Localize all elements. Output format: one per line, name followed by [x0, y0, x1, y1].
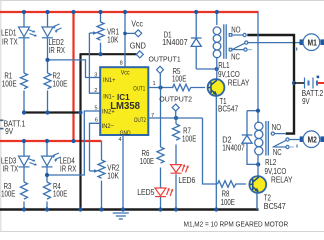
wire: LED2 tap to IN1+ (pin3): [48, 60, 101, 78]
wire: GND black wire to diamond: [80, 53, 137, 55]
svg-text:NC: NC: [231, 52, 240, 61]
resistor R3: [21, 182, 28, 199]
LED6: [171, 165, 189, 174]
wire: LED3 column: [23, 141, 25, 210]
battery BATT.2: [292, 81, 296, 85]
LED2 IR RX: [42, 24, 62, 38]
wire: +9V top rail (red): [0, 11, 259, 13]
svg-text:BC547: BC547: [264, 202, 286, 211]
svg-text:OUTPUT2: OUTPUT2: [159, 97, 192, 104]
resistor R5: [173, 84, 206, 91]
svg-text:BC547: BC547: [218, 104, 239, 113]
svg-text:9V,1CO: 9V,1CO: [218, 70, 240, 79]
svg-text:RELAY: RELAY: [271, 176, 293, 185]
relay RL1 contacts: [229, 33, 248, 51]
wire: blue vertical from rail end to RL2: [257, 12, 259, 123]
wire: black vertical ground bus x=80.5: [79, 54, 81, 211]
svg-text:M2: M2: [308, 135, 318, 144]
svg-text:NC: NC: [273, 148, 282, 157]
svg-text:Vcc: Vcc: [131, 20, 143, 29]
wire: Vcc diamond branch: [125, 32, 135, 34]
wire: R7 column: [175, 118, 177, 210]
wire: VR1 wiper to IN1- (pin2): [89, 33, 100, 93]
svg-text:LED1: LED1: [1, 29, 17, 38]
wire: red vertical link x=73.5: [72, 12, 74, 141]
svg-text:LED6: LED6: [178, 176, 195, 185]
node: GND diamond: [136, 51, 143, 58]
resistor R7: [173, 124, 180, 140]
svg-text:RL2: RL2: [265, 158, 277, 167]
resistor R2: [44, 73, 51, 89]
wire: BATT.2 positive stub (red): [318, 82, 324, 84]
svg-text:100E: 100E: [140, 157, 154, 166]
svg-text:IR TX: IR TX: [3, 164, 19, 173]
ground symbol: [113, 213, 129, 219]
wire: LED2 column: [47, 12, 49, 113]
wire: bottom ground rail (black): [0, 208, 259, 211]
svg-text:100E: 100E: [53, 80, 68, 89]
svg-text:1N4007: 1N4007: [162, 38, 188, 47]
wire: RL1 common to M1: [248, 42, 300, 44]
node: lower rail dots: [22, 139, 26, 143]
svg-text:IR RX: IR RX: [60, 165, 77, 174]
LED5: [155, 188, 173, 197]
svg-text:9V: 9V: [302, 97, 310, 106]
transistor T1 BC547: [215, 95, 217, 210]
node: VR1 top/bottom dots: [98, 10, 102, 14]
svg-text:NO: NO: [272, 123, 281, 132]
wire: NO1 black wire to battery bus: [247, 35, 294, 134]
wire: LED4 column: [46, 141, 48, 210]
wire: VR2 wiper to IN2- (pin6): [90, 123, 101, 171]
svg-text:4: 4: [119, 137, 122, 143]
IC1 internal labels: [102, 69, 147, 137]
svg-text:9V: 9V: [5, 127, 14, 136]
svg-text:5: 5: [95, 106, 98, 112]
diode D1 1N4007: [191, 12, 217, 69]
LED4 IR RX: [42, 153, 62, 167]
svg-text:IR TX: IR TX: [2, 37, 18, 46]
svg-text:10K: 10K: [107, 172, 119, 181]
motor M2: [300, 136, 304, 142]
relay RL2 coil: [255, 121, 269, 176]
potentiometer VR2: [90, 141, 106, 210]
svg-text:100E: 100E: [2, 80, 17, 89]
relay RL2 contacts: [271, 132, 289, 149]
svg-text:10K: 10K: [107, 35, 119, 44]
node: Vcc diamond: [135, 30, 142, 37]
resistor R4: [44, 182, 51, 199]
motor M1: [300, 39, 304, 45]
svg-text:100E: 100E: [172, 74, 186, 83]
svg-text:LM358: LM358: [110, 101, 140, 112]
node: LED2 tap junction: [45, 58, 49, 62]
svg-text:100E: 100E: [53, 190, 67, 199]
svg-text:IN1+: IN1+: [103, 77, 116, 84]
node: OUTPUT1 diamond: [159, 73, 161, 87]
svg-text:IR RX: IR RX: [49, 46, 66, 55]
BATT.1 terminals: [0, 120, 4, 128]
svg-text:RELAY: RELAY: [228, 79, 250, 88]
potentiometer VR1: [89, 12, 104, 54]
svg-text:6: 6: [95, 118, 98, 124]
wire: pin7 extension to R8: [203, 118, 218, 184]
LED1 IR TX: [19, 27, 37, 38]
svg-text:IN1−: IN1−: [103, 94, 115, 101]
svg-text:100E: 100E: [1, 190, 15, 199]
svg-text:OUTPUT1: OUTPUT1: [149, 57, 181, 64]
wire: R6 column from OUT1 node: [160, 88, 162, 210]
svg-text:OUT2: OUT2: [134, 117, 146, 124]
op-amp IC1 LM358 box: [100, 67, 148, 135]
svg-text:NO: NO: [231, 26, 240, 35]
svg-text:IN2−: IN2−: [102, 123, 114, 130]
svg-text:LED5: LED5: [137, 188, 155, 197]
svg-text:2: 2: [94, 88, 97, 94]
diode D2 1N4007: [242, 111, 258, 165]
svg-text:RL1: RL1: [218, 61, 230, 70]
transistor T2 BC547: [256, 193, 258, 210]
wire: pin1 OUT1 to R5: [148, 87, 173, 89]
pin numbers: [94, 61, 155, 143]
relay RL1 coil: [213, 12, 226, 79]
resistor R8: [218, 181, 247, 188]
svg-text:3: 3: [94, 73, 97, 79]
svg-text:7: 7: [151, 113, 154, 119]
svg-text:M1: M1: [308, 38, 318, 47]
wire: LED4 tap to IN2+ (pin5): [47, 111, 100, 175]
LED3 IR TX: [19, 156, 37, 167]
wire: pin8 Vcc column: [124, 12, 126, 67]
svg-text:1N4007: 1N4007: [222, 143, 245, 152]
wire: RL2 common to M2: [289, 139, 300, 141]
svg-text:100E: 100E: [182, 134, 196, 143]
svg-text:1: 1: [153, 81, 156, 87]
svg-text:OUT1: OUT1: [133, 86, 145, 93]
wire: LED1 column: [23, 12, 25, 113]
node: rail dots top sensors: [22, 10, 26, 14]
svg-text:8: 8: [120, 61, 123, 67]
svg-text:M1,M2 = 10 RPM GEARED MOTOR: M1,M2 = 10 RPM GEARED MOTOR: [184, 222, 289, 229]
node: OUTPUT2 diamond: [175, 111, 177, 118]
svg-text:Vcc: Vcc: [121, 69, 130, 76]
wire: upper sensor ground rail: [24, 111, 81, 113]
resistor R6: [157, 147, 164, 163]
wire: pin4 ground column: [122, 135, 124, 210]
node: LED4 tap junction: [45, 173, 49, 177]
wire: pin7 OUT2 row: [148, 117, 202, 119]
resistor R1: [21, 73, 28, 89]
svg-text:100E: 100E: [221, 198, 235, 207]
svg-text:GND: GND: [130, 41, 146, 50]
wire: +9V lower rail (red): [0, 140, 102, 142]
